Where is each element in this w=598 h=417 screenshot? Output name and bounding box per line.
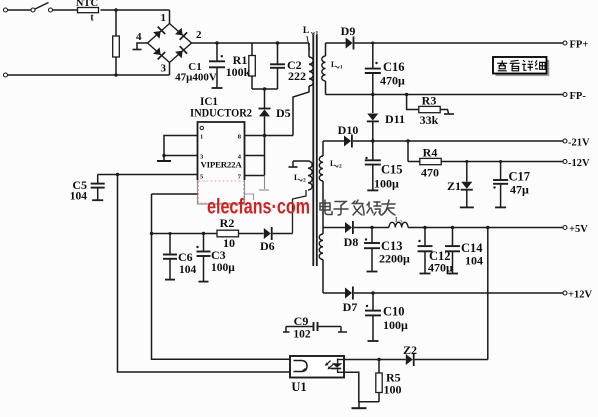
svg-text:104: 104 bbox=[70, 191, 88, 203]
svg-text:D5: D5 bbox=[276, 106, 291, 120]
optocoupler U1 bbox=[290, 356, 344, 378]
wire C5 row bbox=[98, 174, 198, 176]
wire bbox=[252, 88, 278, 90]
svg-text:C3: C3 bbox=[211, 248, 226, 262]
terminal FP+ bbox=[563, 41, 567, 45]
svg-text:w2: w2 bbox=[299, 178, 306, 184]
inductor Lw2 aux winding bbox=[293, 160, 308, 162]
bridge pin 4 stub bbox=[137, 43, 148, 49]
junction bbox=[263, 87, 266, 90]
diode D10 bbox=[344, 136, 351, 147]
junction bbox=[114, 8, 117, 11]
capacitor C1 bbox=[216, 43, 218, 61]
capacitor C6 bbox=[169, 234, 171, 254]
junction bbox=[371, 291, 374, 294]
wire second vertical to U1 bbox=[152, 194, 291, 359]
diode D5 bbox=[264, 89, 266, 109]
svg-text:4: 4 bbox=[136, 31, 142, 43]
red watermark dashed artifact bbox=[199, 181, 244, 203]
svg-text:2: 2 bbox=[196, 29, 202, 41]
junction R4 tap bbox=[406, 139, 409, 142]
op-amp U-IC1 VIPER22A body bbox=[198, 122, 245, 180]
svg-text:elecfans·com: elecfans·com bbox=[207, 196, 310, 219]
capacitor C16 bbox=[372, 43, 374, 68]
wire pin3 bbox=[164, 155, 198, 157]
svg-text:FP-: FP- bbox=[570, 91, 587, 102]
svg-text:C16: C16 bbox=[383, 60, 405, 74]
wire bbox=[53, 9, 78, 11]
svg-text:100k: 100k bbox=[226, 65, 251, 79]
svg-text:INDUCTOR2: INDUCTOR2 bbox=[190, 108, 252, 120]
terminal FP- bbox=[563, 93, 567, 97]
junction bbox=[465, 160, 468, 163]
svg-text:104: 104 bbox=[465, 254, 483, 268]
capacitor C3 bbox=[203, 234, 205, 251]
wire pin1 bbox=[164, 136, 198, 161]
wire bbox=[239, 233, 264, 235]
pin2 stub grey bbox=[245, 194, 254, 200]
svg-text:3: 3 bbox=[161, 63, 167, 75]
junction bbox=[169, 232, 172, 235]
wire FP+ rail bbox=[326, 42, 346, 44]
wire FP- rail bbox=[326, 94, 564, 96]
zener Z1 bbox=[466, 162, 468, 182]
junction feedback tap bbox=[486, 226, 489, 229]
svg-text:+5V: +5V bbox=[569, 224, 588, 235]
wire bbox=[354, 292, 563, 294]
svg-text:R4: R4 bbox=[423, 146, 438, 160]
zener Z2 bbox=[406, 354, 413, 365]
svg-text:w2: w2 bbox=[335, 164, 342, 170]
svg-text:100: 100 bbox=[384, 383, 402, 397]
svg-text:D9: D9 bbox=[341, 24, 356, 38]
capacitor C12 bbox=[424, 228, 426, 246]
wire bbox=[354, 42, 563, 44]
svg-text:-12V: -12V bbox=[568, 158, 590, 169]
watermark CJK bbox=[320, 200, 332, 215]
svg-text:470μ: 470μ bbox=[380, 74, 405, 88]
AC input terminal bottom bbox=[4, 73, 8, 77]
capacitor C14 bbox=[452, 228, 454, 246]
junction bbox=[371, 42, 374, 45]
svg-text:U1: U1 bbox=[291, 380, 306, 394]
wire bbox=[8, 74, 170, 76]
svg-text:C17: C17 bbox=[509, 170, 531, 184]
diode D7 bbox=[345, 288, 352, 299]
capacitor C9 bbox=[286, 326, 313, 328]
wire +5V rail start bbox=[323, 227, 345, 229]
resistor R2 bbox=[217, 230, 239, 237]
svg-text:33k: 33k bbox=[420, 113, 439, 127]
junction bbox=[114, 73, 117, 76]
wire -21V rail bbox=[323, 140, 344, 142]
diode D9 bbox=[346, 38, 353, 49]
terminal +5V bbox=[563, 226, 567, 230]
terminal -12V bbox=[563, 160, 567, 164]
resistor (line filter) bbox=[113, 36, 120, 57]
capacitor C17 bbox=[500, 162, 502, 180]
inductor Lw1 primary winding bbox=[308, 43, 310, 57]
svg-text:NTC: NTC bbox=[76, 0, 98, 9]
svg-text:L: L bbox=[303, 26, 309, 36]
capacitor C13 bbox=[371, 228, 373, 243]
svg-text:100μ: 100μ bbox=[211, 262, 235, 274]
inductor L2 bbox=[389, 222, 408, 227]
svg-text:C10: C10 bbox=[383, 305, 405, 319]
svg-text:C6: C6 bbox=[178, 250, 193, 264]
svg-text:100μ: 100μ bbox=[374, 177, 399, 191]
capacitor C2 bbox=[277, 43, 279, 64]
svg-text:D7: D7 bbox=[343, 300, 358, 314]
junction bbox=[215, 41, 218, 44]
svg-text:1: 1 bbox=[200, 134, 203, 141]
junction bbox=[116, 173, 119, 176]
inductor Lw3 secondary winding bbox=[319, 234, 323, 260]
junction bbox=[451, 226, 454, 229]
diode D11 bbox=[372, 95, 374, 114]
junction R3 tap bbox=[405, 93, 408, 96]
svg-text:-21V: -21V bbox=[568, 138, 590, 149]
junction bbox=[162, 154, 165, 157]
ground bbox=[358, 402, 360, 408]
junction bbox=[150, 232, 153, 235]
svg-text:100μ: 100μ bbox=[383, 318, 408, 332]
svg-text:D6: D6 bbox=[260, 239, 275, 253]
svg-text:w1: w1 bbox=[336, 65, 343, 71]
svg-text:470μ: 470μ bbox=[428, 261, 453, 275]
wire R2 row bbox=[152, 233, 218, 235]
svg-text:+12V: +12V bbox=[568, 290, 592, 301]
wire pin4 row bbox=[152, 193, 198, 195]
resistor R3 bbox=[407, 95, 419, 110]
svg-text:FP+: FP+ bbox=[570, 40, 589, 51]
switch S1 bbox=[31, 8, 35, 12]
wire bbox=[353, 140, 563, 142]
wire bbox=[354, 227, 389, 229]
wire bbox=[169, 10, 171, 24]
wire drain to primary bbox=[245, 135, 294, 137]
svg-text:104: 104 bbox=[179, 264, 197, 276]
junction bbox=[371, 93, 374, 96]
svg-text:C15: C15 bbox=[381, 163, 403, 177]
resistor R1 bbox=[251, 43, 253, 56]
svg-text:1: 1 bbox=[161, 12, 167, 24]
wire bbox=[415, 359, 488, 361]
svg-text:IC1: IC1 bbox=[200, 96, 218, 108]
wire bbox=[408, 227, 563, 229]
junction bbox=[276, 41, 279, 44]
junction bbox=[423, 226, 426, 229]
wire bbox=[169, 63, 171, 76]
svg-text:D11: D11 bbox=[385, 112, 405, 126]
svg-text:47μ: 47μ bbox=[510, 183, 529, 197]
diode D8 bbox=[345, 222, 352, 233]
svg-text:C9: C9 bbox=[294, 314, 309, 328]
svg-text:D8: D8 bbox=[344, 235, 359, 249]
inductor Lw2 secondary winding bbox=[322, 141, 324, 156]
wire bbox=[407, 141, 409, 162]
junction bbox=[371, 139, 374, 142]
svg-text:222: 222 bbox=[288, 69, 306, 83]
svg-text:Z2: Z2 bbox=[403, 343, 417, 357]
resistor R5 bbox=[378, 360, 380, 374]
svg-text:D10: D10 bbox=[338, 123, 359, 137]
wire bbox=[8, 9, 32, 11]
terminal -21V bbox=[563, 139, 567, 143]
svg-text:2200μ: 2200μ bbox=[379, 252, 410, 266]
wire feedback vertical bbox=[487, 228, 489, 360]
resistor R4 bbox=[408, 161, 420, 163]
svg-text:470: 470 bbox=[421, 166, 439, 180]
junction bbox=[202, 232, 205, 235]
wire HV rail bbox=[192, 42, 310, 44]
capacitor C10 bbox=[372, 293, 374, 310]
AC input terminal top bbox=[4, 8, 8, 12]
svg-text:Z1: Z1 bbox=[447, 179, 461, 193]
svg-text:102: 102 bbox=[293, 329, 311, 341]
capacitor C5 bbox=[97, 175, 99, 184]
drain stub tail bbox=[264, 176, 266, 190]
inductor Lw1 secondary winding bbox=[325, 43, 327, 56]
bridge rectifier bbox=[148, 24, 192, 63]
button view-details bbox=[496, 60, 550, 76]
ground bbox=[157, 160, 171, 162]
wire +12V rail start bbox=[323, 292, 345, 294]
junction bbox=[499, 160, 502, 163]
junction bbox=[370, 226, 373, 229]
wire -12V rail bbox=[441, 161, 563, 163]
wire left vertical to U1 bbox=[118, 175, 291, 373]
capacitor C15 bbox=[372, 141, 374, 160]
transformer core bbox=[312, 35, 314, 266]
svg-text:47μ400V: 47μ400V bbox=[175, 72, 217, 84]
wire U1 emitter bbox=[344, 372, 379, 402]
terminal +12V bbox=[563, 291, 567, 295]
wire bbox=[101, 9, 170, 11]
diode D6 bbox=[264, 228, 271, 239]
svg-text:R3: R3 bbox=[422, 94, 437, 108]
svg-text:w1: w1 bbox=[311, 31, 318, 37]
junction bbox=[263, 134, 266, 137]
wire U1 out bbox=[344, 359, 406, 361]
junction bbox=[377, 358, 380, 361]
wire aux winding return bbox=[293, 190, 307, 234]
wire drain pins bbox=[245, 155, 265, 157]
wire bbox=[115, 10, 117, 36]
svg-text:VIPER22A: VIPER22A bbox=[201, 161, 242, 170]
resistor NTC bbox=[78, 8, 99, 13]
wire bbox=[115, 57, 117, 75]
